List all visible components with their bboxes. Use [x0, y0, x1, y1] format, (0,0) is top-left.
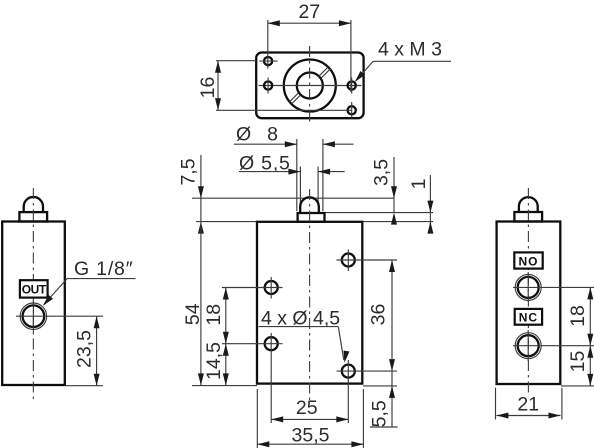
ext UR hole right — [337, 259, 398, 261]
left collar — [19, 212, 47, 221]
M3 hole ML — [264, 78, 272, 94]
dim 25 line — [271, 416, 348, 422]
dim 7,5 line (shared with 54) — [198, 155, 204, 234]
ext right body bottom — [561, 385, 594, 387]
block top extension right — [362, 221, 433, 223]
lower port vertical line — [527, 330, 529, 361]
ext LR hole right — [337, 370, 398, 372]
dim 18 left line — [223, 288, 229, 344]
dome top extension line — [192, 197, 395, 199]
right dome — [519, 197, 538, 212]
left centerline — [32, 188, 34, 400]
NC box — [515, 309, 542, 325]
flange horizontal centerline — [259, 85, 362, 87]
svg-text:1: 1 — [408, 179, 430, 190]
upper port outer — [515, 274, 541, 300]
dim 18 right line — [587, 287, 593, 345]
upper port horizontal line + 18 ext — [513, 286, 594, 288]
svg-text:3,5: 3,5 — [371, 159, 393, 186]
dim 16 extension bottom — [216, 109, 352, 111]
svg-text:18: 18 — [203, 304, 225, 326]
svg-text:27: 27 — [299, 1, 321, 23]
hatch SW — [289, 93, 301, 104]
dim 16 line — [215, 61, 221, 111]
M3 hole BR — [348, 102, 356, 119]
dim 36 line — [389, 260, 395, 371]
dim 3,5 line — [391, 157, 397, 225]
svg-text:NO: NO — [519, 254, 539, 268]
svg-text:54: 54 — [182, 303, 204, 325]
right body outline — [497, 222, 561, 385]
left port vertical centerline — [32, 301, 34, 332]
left port outer — [20, 303, 46, 329]
hole UR — [342, 250, 355, 272]
dim Ø5,5 extensions — [300, 167, 318, 207]
svg-text:4 x M 3: 4 x M 3 — [378, 39, 442, 61]
dim 27 extension right — [350, 20, 352, 92]
label 4 x M 3 — [353, 39, 451, 84]
svg-text:35,5: 35,5 — [292, 425, 330, 447]
hatch NE — [319, 67, 331, 78]
svg-text:18: 18 — [567, 305, 589, 327]
upper port inner — [518, 277, 539, 298]
OUT box — [20, 280, 48, 297]
ext block bottom left — [192, 385, 257, 387]
svg-text:15: 15 — [567, 351, 589, 373]
left dome — [24, 197, 43, 212]
ext 35,5 left — [256, 389, 258, 448]
dim 16 extension top — [216, 60, 256, 62]
svg-text:21: 21 — [517, 394, 539, 416]
ext LL hole left — [222, 343, 283, 345]
svg-text:36: 36 — [368, 304, 390, 326]
flange vertical centerline — [309, 46, 311, 124]
collar top extension line — [325, 212, 433, 214]
right collar — [514, 212, 542, 222]
M3 hole TL — [260, 57, 278, 65]
svg-text:Ø 8: Ø 8 — [236, 124, 280, 146]
hole LL — [265, 333, 278, 423]
dim 5,5 front line — [370, 371, 398, 427]
dim 27 line — [268, 20, 351, 26]
ext 21 left — [495, 388, 497, 420]
ring inner circle — [297, 73, 323, 99]
ext UL hole left — [222, 287, 283, 289]
dim Ø8 line — [234, 141, 354, 147]
label 4 x Ø 4,5 — [259, 308, 350, 364]
ext 35,5 right — [362, 389, 364, 448]
block top extension left — [196, 221, 257, 223]
lower port outer — [515, 333, 541, 359]
ext 21 right — [561, 388, 563, 420]
left port inner — [23, 305, 45, 327]
dim 54 line — [198, 222, 204, 386]
left port horizontal centerline + 23,5 ext — [16, 315, 103, 317]
dim 1 line — [427, 175, 433, 234]
ext block bottom right — [363, 385, 397, 387]
svg-text:5,5: 5,5 — [369, 400, 391, 427]
lower port horizontal line + ext — [513, 345, 594, 347]
svg-text:25: 25 — [296, 397, 318, 419]
hole LR — [342, 360, 355, 423]
dim 35,5 line — [257, 441, 363, 447]
upper port vertical line — [527, 272, 529, 302]
front dome — [300, 197, 319, 213]
dim Ø8 extensions — [297, 139, 323, 211]
dim 14,5 line — [223, 344, 229, 386]
flange outline — [256, 53, 363, 119]
svg-text:16: 16 — [197, 77, 219, 99]
front collar — [298, 213, 325, 222]
svg-text:G 1/8″: G 1/8″ — [74, 258, 133, 280]
front vertical centerline — [309, 189, 311, 400]
dim 21 line — [496, 413, 560, 419]
lower port inner — [518, 335, 539, 356]
label G 1/8" — [41, 258, 136, 308]
ext left body bottom — [66, 385, 103, 387]
hole UL — [265, 277, 278, 299]
front block outline — [257, 222, 362, 384]
svg-text:NC: NC — [519, 311, 538, 325]
left body outline — [2, 222, 65, 386]
svg-text:OUT: OUT — [22, 283, 47, 297]
ring outer circle — [284, 60, 336, 112]
M3 hole MR — [348, 78, 356, 94]
dim 27 extension left — [267, 20, 269, 69]
dim 15 line — [587, 346, 593, 386]
NO box — [514, 252, 542, 268]
svg-text:7,5: 7,5 — [178, 158, 200, 185]
right centerline — [527, 188, 529, 396]
dim 23,5 line — [94, 316, 100, 386]
svg-text:14,5: 14,5 — [203, 342, 225, 380]
svg-text:23,5: 23,5 — [74, 330, 96, 368]
dim Ø5,5 line — [239, 169, 345, 175]
